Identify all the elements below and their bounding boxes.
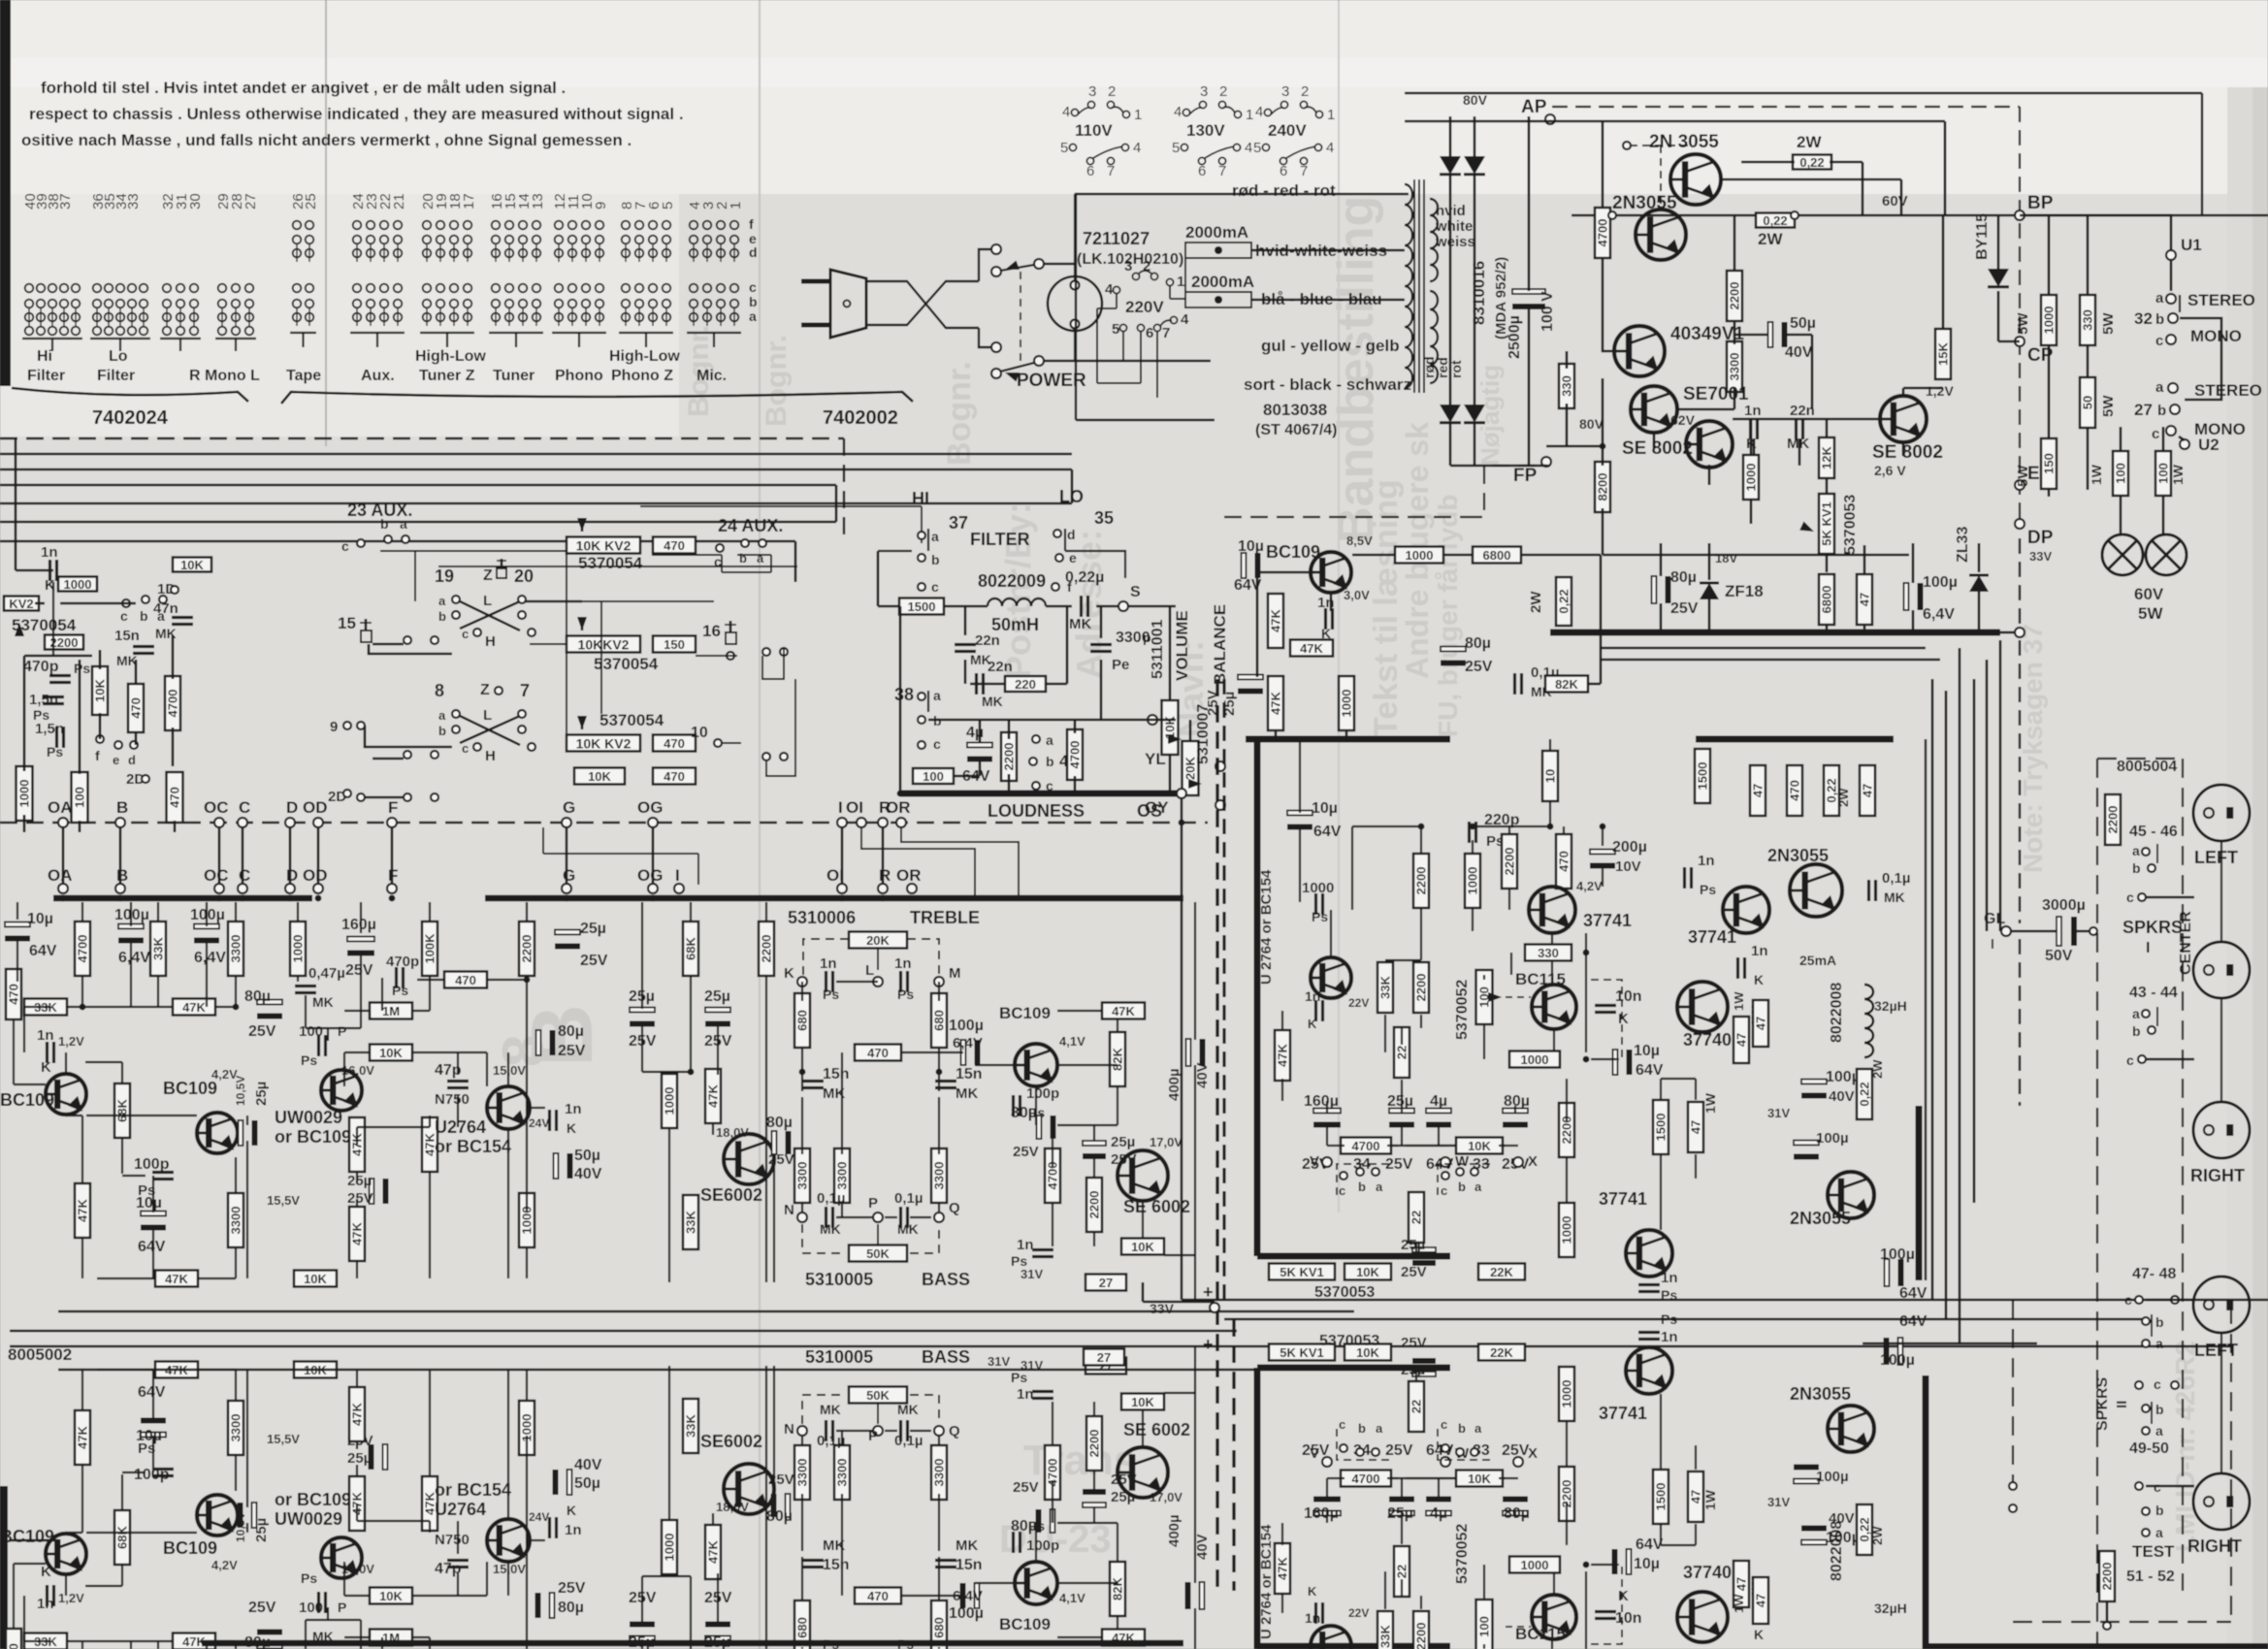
svg-text:33K: 33K bbox=[684, 1210, 698, 1233]
svg-text:1000: 1000 bbox=[1744, 464, 1759, 492]
cap 100u 64V out bbox=[1898, 1338, 1903, 1365]
cap 100 Ps bbox=[317, 1592, 320, 1613]
svg-text:47: 47 bbox=[1689, 1120, 1703, 1134]
dashed rail vertical bbox=[2019, 107, 2021, 524]
svg-text:c: c bbox=[120, 608, 128, 624]
j1 bbox=[1583, 950, 1590, 956]
resistor 4700 bbox=[75, 921, 90, 976]
svg-text:68K: 68K bbox=[115, 1525, 130, 1548]
svg-text:3300: 3300 bbox=[932, 1162, 947, 1190]
w bbox=[1415, 1242, 1417, 1256]
svg-text:FU, bruger får lydb: FU, bruger får lydb bbox=[1433, 495, 1463, 737]
w bbox=[1660, 1524, 1662, 1545]
w bbox=[1503, 1145, 1518, 1147]
svg-text:80µ: 80µ bbox=[1011, 1518, 1037, 1535]
svg-text:40V: 40V bbox=[574, 1457, 602, 1473]
svg-text:22: 22 bbox=[1395, 1565, 1409, 1578]
w bbox=[130, 939, 132, 1007]
bus2 node OI bbox=[837, 884, 847, 893]
svg-text:47: 47 bbox=[1858, 593, 1872, 606]
svg-text:MK: MK bbox=[956, 1085, 978, 1102]
svg-text:10µ: 10µ bbox=[136, 1428, 162, 1444]
resistor 2200 bbox=[45, 635, 83, 650]
resistor 2200 amp2 bbox=[1413, 962, 1429, 1013]
w bbox=[1551, 1639, 1553, 1649]
svg-text:CENTER: CENTER bbox=[2178, 911, 2194, 975]
svg-text:D: D bbox=[286, 798, 298, 817]
w bbox=[1628, 1544, 1661, 1546]
bus2 node OG bbox=[648, 884, 658, 893]
svg-text:25V: 25V bbox=[1385, 1156, 1413, 1173]
svg-text:MK: MK bbox=[956, 1537, 978, 1554]
resistor 0.22 2W bbox=[1556, 577, 1571, 626]
resistor 330 bbox=[1559, 364, 1574, 408]
right bundle verticals bbox=[1931, 679, 1934, 1300]
w bbox=[1401, 1511, 1403, 1544]
resistor 680 R bbox=[931, 993, 947, 1048]
Q node bbox=[934, 1212, 944, 1222]
svg-text:OG: OG bbox=[637, 798, 663, 817]
w bbox=[1194, 1065, 1196, 1302]
w bbox=[1420, 1596, 1422, 1609]
svg-text:MONO: MONO bbox=[2190, 327, 2242, 345]
svg-text:gul - yellow - gelb: gul - yellow - gelb bbox=[1261, 337, 1400, 355]
w bbox=[417, 979, 444, 981]
svg-text:2: 2 bbox=[1108, 83, 1116, 100]
svg-text:15n: 15n bbox=[114, 628, 140, 644]
transistor UW0029 bbox=[321, 1070, 362, 1111]
contacts cba bbox=[716, 544, 724, 552]
w bbox=[382, 977, 417, 979]
w bbox=[1438, 1478, 1440, 1501]
svg-text:3: 3 bbox=[1200, 83, 1208, 100]
svg-text:25µ: 25µ bbox=[580, 921, 606, 937]
w bbox=[801, 1203, 803, 1212]
w bbox=[1517, 1123, 1519, 1157]
resistor 330 amp bbox=[1525, 945, 1571, 961]
svg-text:80µ: 80µ bbox=[1670, 569, 1697, 586]
svg-text:7: 7 bbox=[1218, 163, 1226, 179]
cap 1n K pre bbox=[1324, 608, 1327, 630]
w bbox=[206, 1641, 208, 1649]
switch box 33 bbox=[1438, 1429, 1492, 1460]
svg-text:4: 4 bbox=[1174, 104, 1182, 120]
input wires bbox=[16, 569, 53, 572]
svg-text:I: I bbox=[838, 798, 843, 817]
svg-text:or BC109: or BC109 bbox=[275, 1490, 351, 1509]
w bbox=[801, 1072, 803, 1091]
svg-text:0,1µ: 0,1µ bbox=[894, 1433, 923, 1449]
w bbox=[1506, 1138, 1515, 1140]
cap 25u 25V rot bbox=[252, 1503, 257, 1528]
w bbox=[457, 1094, 459, 1127]
svg-text:6800: 6800 bbox=[1483, 548, 1511, 563]
w bbox=[642, 1575, 691, 1577]
svg-text:Ps: Ps bbox=[301, 1052, 317, 1068]
resistor 68K b bbox=[683, 921, 698, 976]
w bbox=[458, 1126, 487, 1128]
transformer secondary winding bbox=[1430, 199, 1438, 281]
cap 1n K bbox=[46, 1042, 49, 1063]
w bbox=[901, 1595, 951, 1597]
svg-text:1500: 1500 bbox=[1654, 1114, 1669, 1142]
w bbox=[85, 1061, 122, 1063]
svg-text:6800: 6800 bbox=[1820, 586, 1834, 614]
transistor BC109 pre bbox=[1311, 552, 1351, 593]
resistor 2200 d bbox=[759, 921, 774, 976]
svg-text:25V: 25V bbox=[1205, 690, 1221, 716]
resistor 3300 R bbox=[931, 1148, 947, 1203]
resistor 2200 spk bbox=[2105, 794, 2121, 845]
w bbox=[1093, 1402, 1095, 1416]
svg-text:L: L bbox=[483, 593, 492, 609]
svg-text:19: 19 bbox=[435, 566, 454, 586]
resistor 470 bbox=[6, 969, 21, 1019]
svg-text:1000: 1000 bbox=[17, 780, 32, 808]
svg-text:1000: 1000 bbox=[1340, 690, 1354, 718]
w bbox=[836, 981, 878, 983]
w bbox=[157, 1641, 159, 1649]
w bbox=[1514, 1511, 1516, 1518]
w bbox=[1506, 1484, 1515, 1486]
svg-text:respect to chassis . Unless: respect to chassis . Unless otherwise in… bbox=[29, 105, 684, 123]
resistor 47K g bbox=[705, 1069, 721, 1123]
bus1 node OC bbox=[214, 818, 224, 827]
junction bbox=[936, 1069, 943, 1076]
resistor 27 lower bbox=[1084, 1349, 1124, 1366]
contacts ab2 bbox=[2142, 1010, 2150, 1018]
cap 50u 40V bbox=[567, 1470, 572, 1495]
w bbox=[910, 1430, 931, 1432]
svg-text:25V: 25V bbox=[347, 1190, 373, 1207]
w bbox=[85, 1585, 122, 1587]
svg-text:15,5V: 15,5V bbox=[267, 1432, 300, 1446]
cap 22n MK b bbox=[975, 673, 978, 695]
w bbox=[1164, 1254, 1195, 1256]
w bbox=[950, 1595, 952, 1597]
svg-text:24V: 24V bbox=[529, 1510, 549, 1524]
w bbox=[1517, 1467, 1519, 1501]
cap 10u 64V amp2 bbox=[1613, 1050, 1618, 1075]
w bbox=[668, 1552, 670, 1573]
w bbox=[429, 1637, 431, 1649]
svg-text:BP: BP bbox=[2027, 193, 2054, 213]
w bbox=[81, 1115, 83, 1183]
bus2 node OR bbox=[907, 884, 917, 893]
svg-text:470: 470 bbox=[7, 984, 21, 1005]
svg-text:80V: 80V bbox=[1463, 92, 1488, 108]
svg-text:2200: 2200 bbox=[2100, 1563, 2115, 1591]
svg-text:15n: 15n bbox=[956, 1557, 983, 1573]
contacts bbox=[357, 539, 365, 547]
resistor 82K bbox=[1110, 1032, 1125, 1086]
w bbox=[1438, 1123, 1440, 1146]
svg-text:25µ: 25µ bbox=[347, 1450, 372, 1467]
svg-text:MK: MK bbox=[312, 994, 334, 1010]
resistor 1500 amp2 bbox=[1695, 749, 1710, 803]
fold crease bbox=[325, 0, 327, 446]
w bbox=[1057, 1124, 1118, 1126]
svg-text:1000: 1000 bbox=[64, 577, 92, 592]
resistor 22 amp2 bbox=[1409, 1192, 1424, 1243]
svg-text:25V: 25V bbox=[580, 953, 608, 969]
svg-text:32: 32 bbox=[2134, 309, 2153, 328]
w bbox=[938, 1647, 940, 1649]
KV2 arrow bbox=[15, 623, 24, 636]
svg-text:47K: 47K bbox=[1112, 1004, 1135, 1018]
svg-text:sort - black - schwarz: sort - black - schwarz bbox=[1244, 375, 1411, 394]
svg-text:5: 5 bbox=[1060, 140, 1068, 156]
w bbox=[13, 1596, 15, 1630]
w bbox=[1052, 1125, 1053, 1168]
svg-text:Z: Z bbox=[483, 567, 493, 584]
w bbox=[530, 1539, 545, 1541]
w bbox=[356, 1261, 358, 1278]
w bbox=[1484, 974, 1511, 976]
w bbox=[1401, 1080, 1403, 1113]
w bbox=[801, 982, 803, 1001]
w bbox=[429, 902, 431, 921]
cap 1n K amp bbox=[1314, 1602, 1317, 1624]
svg-text:MK: MK bbox=[820, 1221, 841, 1237]
cap 100u 6.4V bbox=[1904, 583, 1909, 610]
svg-text:47: 47 bbox=[1861, 784, 1875, 797]
w bbox=[836, 1216, 873, 1218]
bus2 node G bbox=[562, 884, 571, 893]
w bbox=[121, 1138, 123, 1174]
bus2 node OC bbox=[214, 884, 224, 893]
w bbox=[1392, 1477, 1445, 1479]
svg-text:25µ: 25µ bbox=[1111, 1134, 1135, 1150]
j2 bbox=[1583, 1056, 1590, 1063]
w bbox=[1420, 908, 1422, 960]
svg-text:4: 4 bbox=[1245, 140, 1252, 156]
svg-text:680: 680 bbox=[795, 1617, 810, 1638]
svg-text:20: 20 bbox=[514, 566, 534, 586]
svg-text:Ps: Ps bbox=[823, 986, 839, 1002]
w bbox=[343, 1562, 345, 1596]
svg-text:1: 1 bbox=[1177, 274, 1184, 290]
svg-text:white: white bbox=[1435, 218, 1473, 235]
w bbox=[717, 902, 719, 1009]
w bbox=[356, 1172, 358, 1183]
svg-text:10K: 10K bbox=[1468, 1139, 1491, 1153]
svg-text:F: F bbox=[388, 798, 398, 817]
svg-text:1W: 1W bbox=[2089, 464, 2104, 485]
wires right bbox=[1973, 679, 1976, 1203]
resistor 47K h bbox=[1102, 1003, 1145, 1019]
wire OS down bbox=[1181, 797, 1183, 1300]
svg-text:Phono Z: Phono Z bbox=[611, 368, 673, 384]
svg-text:100p: 100p bbox=[134, 1467, 170, 1483]
junction bbox=[1179, 820, 1185, 826]
resistor 4700 bbox=[1595, 208, 1610, 258]
w bbox=[1472, 908, 1474, 931]
svg-text:5K KV1: 5K KV1 bbox=[1280, 1345, 1324, 1360]
resistor 47K c bbox=[155, 1362, 198, 1378]
long wire b bbox=[10, 1330, 1237, 1333]
resistor 470 bbox=[167, 772, 183, 823]
resistor 10K d bbox=[1121, 1239, 1164, 1255]
w bbox=[122, 1175, 146, 1177]
svg-text:a: a bbox=[1474, 1180, 1482, 1194]
w bbox=[1387, 1477, 1398, 1479]
svg-text:forhold til stel . Hvis in: forhold til stel . Hvis intet andet er a… bbox=[41, 79, 566, 97]
svg-text:100µ: 100µ bbox=[1826, 1069, 1861, 1085]
svg-text:10K: 10K bbox=[180, 558, 204, 572]
svg-text:22n: 22n bbox=[988, 659, 1013, 675]
resistor 0.22 c bbox=[1824, 765, 1839, 816]
svg-text:30: 30 bbox=[187, 193, 204, 210]
svg-text:8005002: 8005002 bbox=[8, 1345, 72, 1364]
page edge bbox=[0, 0, 11, 386]
w bbox=[1563, 888, 1565, 889]
w bbox=[526, 976, 528, 1043]
svg-text:10,5V: 10,5V bbox=[234, 1076, 247, 1106]
resistor 47K v bbox=[75, 1183, 90, 1238]
dashed rail AP bbox=[1552, 106, 2020, 108]
w VWX wire bbox=[1327, 1477, 1341, 1479]
resistor 1000 pre bbox=[1395, 547, 1443, 564]
w bbox=[67, 1006, 173, 1008]
svg-text:50K: 50K bbox=[866, 1246, 890, 1261]
resistor 470 c bbox=[653, 735, 696, 752]
w bbox=[1553, 1545, 1555, 1557]
w bbox=[81, 976, 83, 1007]
wire bbox=[1602, 121, 1604, 208]
junction bbox=[1910, 630, 1917, 636]
thick rail right bbox=[1696, 736, 1894, 743]
svg-text:Hi: Hi bbox=[37, 348, 52, 365]
svg-text:1000: 1000 bbox=[663, 1087, 677, 1115]
junction bbox=[839, 895, 846, 902]
w bbox=[691, 1071, 713, 1073]
wires to DIN bbox=[2146, 1299, 2194, 1302]
w bbox=[356, 1465, 358, 1476]
w bbox=[1164, 1392, 1195, 1394]
svg-text:FILTER: FILTER bbox=[970, 530, 1030, 549]
svg-text:80µ: 80µ bbox=[244, 988, 271, 1005]
svg-text:110V: 110V bbox=[1075, 121, 1113, 140]
cap 25u 25V f bbox=[1083, 1141, 1106, 1146]
long wire c bbox=[10, 1345, 2231, 1348]
resistor 470 a bbox=[653, 537, 696, 554]
svg-text:2000mA: 2000mA bbox=[1191, 273, 1254, 291]
svg-text:33K: 33K bbox=[684, 1413, 698, 1437]
svg-text:c: c bbox=[2126, 1052, 2134, 1068]
transistor SE6002 R bbox=[1118, 1150, 1168, 1201]
w bbox=[356, 1503, 358, 1521]
bus1 node C bbox=[238, 818, 247, 827]
svg-text:10K: 10K bbox=[1468, 1471, 1491, 1486]
bus1 node G bbox=[562, 818, 571, 827]
S node bbox=[1118, 601, 1128, 611]
svg-text:5370053: 5370053 bbox=[1314, 1284, 1375, 1301]
svg-text:2W: 2W bbox=[1528, 591, 1544, 613]
w bbox=[1011, 1124, 1036, 1126]
svg-text:K: K bbox=[1754, 972, 1764, 987]
resistor 3300 b bbox=[228, 1401, 243, 1455]
svg-text:5W: 5W bbox=[2015, 312, 2031, 335]
w bbox=[344, 1595, 370, 1597]
sw b33 bbox=[1471, 1448, 1478, 1456]
bus drop bbox=[841, 827, 844, 885]
cap 25u 25V f bbox=[1083, 1503, 1106, 1507]
w bbox=[1093, 1157, 1095, 1178]
N node bbox=[797, 1426, 807, 1436]
w bbox=[641, 1576, 643, 1624]
wire BP to switches bbox=[2020, 215, 2171, 250]
w bbox=[842, 1216, 873, 1218]
cap 25u 25V c bbox=[555, 930, 580, 935]
w bbox=[508, 1369, 527, 1371]
w bbox=[328, 1045, 344, 1047]
svg-text:33K: 33K bbox=[151, 936, 166, 959]
thick vertical bbox=[1254, 1368, 1261, 1649]
svg-text:220: 220 bbox=[1015, 677, 1036, 692]
svg-text:High-Low: High-Low bbox=[415, 348, 486, 365]
svg-text:a: a bbox=[400, 516, 407, 532]
wire top bbox=[1405, 92, 2202, 94]
w bbox=[1142, 1254, 1144, 1256]
svg-text:a: a bbox=[2155, 379, 2164, 396]
svg-text:10n: 10n bbox=[1615, 1610, 1642, 1627]
w bbox=[526, 976, 528, 980]
svg-text:U 2764 or BC154: U 2764 or BC154 bbox=[1258, 869, 1275, 985]
svg-text:220V: 220V bbox=[1125, 298, 1164, 316]
svg-text:2200: 2200 bbox=[1414, 1623, 1429, 1649]
svg-text:100p: 100p bbox=[1026, 1085, 1059, 1102]
38 contacts bbox=[918, 693, 925, 700]
svg-text:8013038: 8013038 bbox=[1263, 401, 1327, 419]
svg-text:25V: 25V bbox=[1013, 1479, 1039, 1496]
w bbox=[1326, 1123, 1328, 1157]
svg-text:37740: 37740 bbox=[1683, 1563, 1732, 1582]
svg-text:4,2V: 4,2V bbox=[1576, 879, 1603, 893]
treble dashed box2 bbox=[907, 939, 939, 975]
U1 node bbox=[2166, 250, 2176, 260]
svg-text:10: 10 bbox=[1543, 769, 1558, 783]
w bbox=[1695, 1154, 1697, 1179]
resistor 2200 amp3 bbox=[1502, 834, 1517, 889]
svg-text:4,2V: 4,2V bbox=[211, 1558, 238, 1572]
w bbox=[1551, 933, 1553, 945]
svg-text:13: 13 bbox=[530, 193, 546, 210]
resistor 22K bbox=[1478, 1264, 1525, 1280]
w VWX wire bbox=[1327, 1145, 1341, 1147]
w bbox=[369, 1011, 371, 1018]
w bbox=[206, 939, 208, 1007]
svg-text:1M: 1M bbox=[382, 1004, 400, 1018]
svg-text:2W: 2W bbox=[1870, 1526, 1885, 1545]
w bbox=[802, 1051, 854, 1053]
w bbox=[357, 1520, 430, 1522]
svg-text:0,22: 0,22 bbox=[1763, 213, 1787, 228]
w bbox=[1549, 739, 1551, 752]
w bbox=[1117, 1616, 1118, 1630]
cap 80u 25V bbox=[1652, 576, 1657, 603]
svg-text:U2764: U2764 bbox=[435, 1500, 486, 1519]
resistor 12K bbox=[1819, 437, 1834, 478]
svg-text:TREBLE: TREBLE bbox=[910, 908, 980, 927]
svg-text:3300: 3300 bbox=[932, 1459, 947, 1487]
w bbox=[801, 1048, 803, 1072]
w bbox=[938, 1436, 940, 1445]
cap 100 Ps bbox=[317, 1035, 320, 1056]
treble arrow bbox=[877, 949, 879, 970]
junction bbox=[897, 791, 904, 797]
w bbox=[1438, 1115, 1440, 1116]
